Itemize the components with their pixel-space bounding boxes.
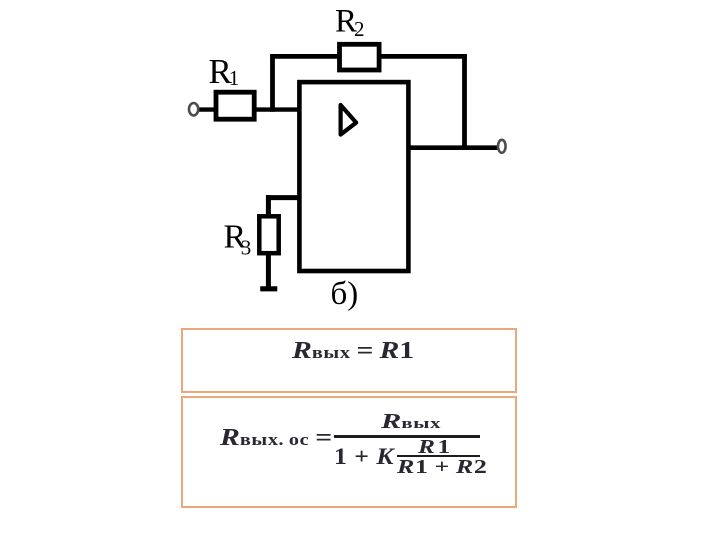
wire: non-inverting input horizontal — [266, 195, 301, 200]
formula box 1 frame — [181, 328, 517, 393]
wire: output of op-amp to output terminal — [407, 145, 498, 150]
formula 2 main fraction numerator: Rvyh — [381, 409, 441, 434]
ground — [260, 286, 277, 291]
svg-text:б): б) — [331, 276, 359, 312]
svg-text:1: 1 — [229, 66, 240, 90]
formula box 2 frame — [181, 396, 517, 508]
formula 2 nested fraction bar — [397, 455, 480, 457]
formula 2 nested fraction numerator: R1 — [418, 436, 453, 459]
svg-text:3: 3 — [241, 236, 252, 260]
resistor R2 — [340, 44, 380, 70]
op-amp U1 body — [299, 82, 408, 271]
formula 2 nested fraction denominator: R1 + R2 — [397, 456, 487, 479]
output terminal — [498, 140, 506, 153]
resistor R1 — [216, 92, 254, 119]
svg-text:2: 2 — [354, 17, 365, 41]
formula 2 denominator: 1 + K — [334, 444, 395, 470]
op-amp triangle symbol — [341, 105, 357, 135]
wire: R2 top horizontal — [270, 54, 467, 59]
formula 2 left side: Rvyh.os = — [220, 425, 332, 452]
formula 2 main fraction bar — [334, 435, 480, 438]
wire: R3 to ground — [266, 252, 271, 289]
resistor R3 — [259, 216, 278, 253]
wire: input terminal to op-amp inverting input (through R1) — [197, 107, 301, 111]
wire: R3 riser vertical — [266, 195, 271, 218]
formula 1: Rvyh = R1 — [292, 338, 414, 365]
input terminal — [189, 103, 198, 115]
wire: feedback left vertical (R2 net down to R1 output node) — [270, 54, 275, 112]
wire: feedback right vertical (R2 net down to output) — [462, 54, 467, 150]
